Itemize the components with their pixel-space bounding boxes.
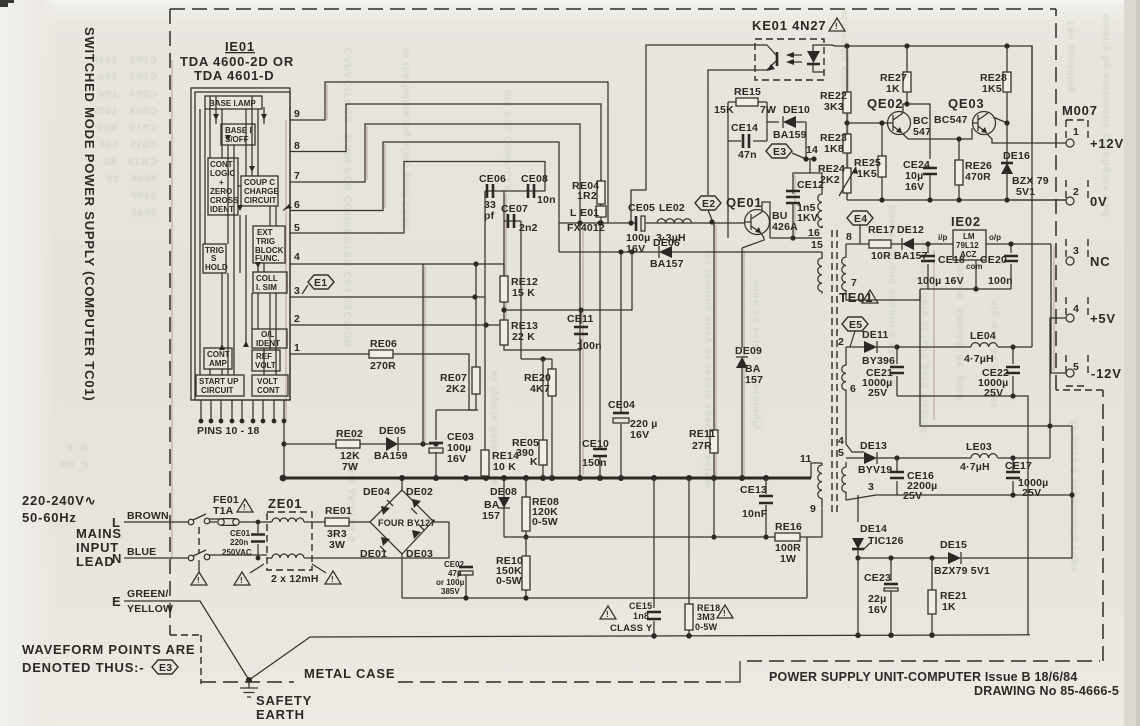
svg-text:10 K: 10 K — [493, 461, 516, 473]
svg-text:DE03: DE03 — [406, 548, 433, 560]
svg-text:PINS 10 - 18: PINS 10 - 18 — [197, 425, 260, 437]
junction dots ground rail — [651, 632, 935, 638]
resistor RE05 — [542, 359, 544, 478]
svg-text:CE14: CE14 — [731, 122, 758, 134]
svg-text:10n: 10n — [537, 194, 556, 206]
svg-text:10nF: 10nF — [742, 508, 768, 520]
svg-text:7W: 7W — [760, 104, 776, 116]
filter ZE01 dashed box — [267, 512, 312, 570]
svg-text:16: 16 — [808, 227, 820, 239]
svg-text:SAFETY: SAFETY — [256, 693, 312, 708]
svg-text:BZX79 5V1: BZX79 5V1 — [934, 565, 990, 577]
svg-text:DENOTED THUS:-: DENOTED THUS:- — [22, 660, 144, 675]
svg-text:E1: E1 — [314, 277, 327, 289]
svg-text:BC547: BC547 — [934, 114, 968, 126]
wire CE21/CE22 bottom rail — [897, 396, 1028, 635]
wire QE01 emitter to DE09 column — [742, 238, 764, 248]
wire +5V riser — [1050, 318, 1066, 458]
svg-text:QE01: QE01 — [726, 195, 762, 210]
svg-text:o/p: o/p — [989, 233, 1001, 242]
wire 0V link to CE16 rail — [1050, 426, 1072, 495]
warning triangle left of ZE01 — [234, 572, 250, 585]
connector pin 5 — [1066, 355, 1088, 386]
svg-text:2: 2 — [838, 336, 844, 348]
svg-text:HOLD: HOLD — [205, 263, 228, 272]
svg-text:CROSS: CROSS — [210, 196, 239, 205]
svg-text:pf: pf — [484, 210, 495, 222]
svg-text:WAVEFORM POINTS ARE: WAVEFORM POINTS ARE — [22, 642, 195, 657]
svg-text:50-60Hz: 50-60Hz — [22, 510, 77, 525]
resistor RE01 — [312, 521, 370, 523]
wire CE16/CE17 bottom rail — [897, 494, 1072, 496]
svg-text:3M3: 3M3 — [697, 612, 715, 622]
junction dot pin4/RE07 column — [473, 261, 478, 266]
capacitor CE08 — [528, 184, 534, 198]
connector pin 3 — [1066, 239, 1088, 257]
wire snubber line 537 — [504, 537, 807, 598]
wire QE02 collector node — [903, 104, 930, 159]
secondary winding 8-7 — [842, 244, 846, 292]
switch L pole — [188, 519, 194, 525]
svg-text:7: 7 — [294, 170, 300, 182]
block COLL I.SIM — [253, 272, 287, 293]
junction dot CE22 top — [1010, 344, 1015, 349]
svg-text:2K2: 2K2 — [446, 383, 466, 395]
svg-text:1W: 1W — [780, 553, 796, 565]
wire QE03 collector to RE28 column — [993, 117, 1007, 123]
junction dot CE01 top — [256, 520, 261, 525]
wire 359 link line — [521, 358, 552, 360]
svg-text:COUP C: COUP C — [244, 178, 275, 187]
wire DE11 to LE04 — [877, 346, 971, 348]
resistor RE15 — [728, 101, 767, 103]
svg-text:VOLT: VOLT — [257, 377, 278, 386]
svg-text:385V: 385V — [441, 587, 460, 596]
svg-text:470R: 470R — [965, 171, 991, 183]
svg-text:IDENT: IDENT — [210, 205, 234, 214]
svg-text:CE13: CE13 — [740, 484, 767, 496]
svg-text:!: ! — [240, 576, 243, 585]
svg-text:LM: LM — [963, 232, 975, 241]
svg-text:RE06: RE06 — [370, 338, 397, 350]
svg-text:426A: 426A — [772, 221, 798, 233]
transistor QE01 — [745, 210, 770, 235]
wire KE01 lower left lead to E2 — [708, 70, 755, 195]
junction dots DE06 line — [618, 249, 623, 254]
primary winding 15 — [818, 252, 822, 294]
junction dot CE03 top — [433, 441, 438, 446]
junction dot DE14 line — [855, 555, 860, 560]
internal bus wires IE01 — [200, 96, 276, 375]
secondary ground rail 635 — [310, 635, 1030, 637]
svg-text:DE12: DE12 — [897, 224, 924, 236]
node E2 hexagon — [695, 196, 721, 210]
wire CE06/CE08 line — [485, 190, 545, 192]
junction dots top wire — [844, 43, 849, 48]
svg-text:7: 7 — [851, 277, 857, 289]
resistor RE07 — [475, 264, 477, 410]
capacitor CE20 — [1010, 244, 1012, 289]
wire com rail down to 0V link — [920, 289, 1050, 426]
switch N pole — [188, 555, 194, 561]
svg-text:BA157: BA157 — [650, 258, 684, 270]
warning triangle below switch — [191, 572, 207, 585]
svg-text:E: E — [112, 594, 121, 609]
svg-text:CIRCUIT: CIRCUIT — [201, 386, 234, 395]
node E5 hexagon — [842, 317, 868, 331]
wire RE13 bottom line — [504, 345, 581, 350]
wire pin 7 staircase — [290, 124, 580, 223]
wire pin16 line — [770, 237, 822, 239]
svg-text:LE04: LE04 — [970, 330, 996, 342]
resistor RE20 — [551, 359, 553, 478]
svg-text:9: 9 — [294, 108, 300, 120]
svg-text:16V: 16V — [630, 429, 649, 441]
transformer TE01 core — [832, 230, 837, 512]
capacitor CE05 electrolytic — [635, 216, 638, 231]
svg-text:E5: E5 — [849, 319, 862, 331]
svg-text:DRAWING No 85-4666-5: DRAWING No 85-4666-5 — [974, 684, 1119, 698]
svg-text:E3: E3 — [159, 662, 172, 674]
svg-text:6: 6 — [850, 383, 856, 395]
svg-text:CIRCUIT: CIRCUIT — [244, 196, 277, 205]
resistor RE14 — [481, 450, 489, 476]
svg-text:CONT: CONT — [257, 386, 280, 395]
junction dots on primary bus — [280, 475, 769, 482]
junction dot RE08 bottom — [523, 534, 528, 539]
svg-text:CE05: CE05 — [628, 202, 655, 214]
svg-text:22 K: 22 K — [512, 331, 535, 343]
internal arrows IE01 — [213, 114, 267, 350]
svg-text:BA159: BA159 — [374, 450, 408, 462]
svg-text:ZE01: ZE01 — [268, 496, 302, 511]
diode DE06 line — [559, 251, 822, 253]
svg-text:!: ! — [835, 22, 838, 31]
wire CE06 left column to RE14 — [484, 191, 486, 450]
wire RE07 bottom link — [436, 409, 476, 411]
block CONT LOGIC ZERO CROSS IDENT — [208, 158, 238, 215]
svg-text:2: 2 — [294, 313, 300, 325]
svg-text:TDA 4600-2D OR: TDA 4600-2D OR — [180, 54, 294, 69]
svg-text:CE02: CE02 — [444, 560, 465, 569]
capacitor CE23 — [888, 555, 893, 560]
wire pin 3 line — [290, 296, 485, 298]
capacitor CE17 — [1012, 458, 1014, 495]
diode DE13 — [864, 452, 877, 464]
inductor LE04 — [971, 343, 997, 347]
switch gang dashed link — [198, 527, 200, 553]
svg-text:3: 3 — [294, 285, 300, 297]
svg-text:BROWN: BROWN — [127, 510, 169, 522]
svg-text:150n: 150n — [582, 457, 607, 469]
resistor RE08 — [525, 478, 527, 537]
svg-text:5: 5 — [838, 447, 844, 459]
svg-text:DE04: DE04 — [363, 486, 390, 498]
svg-text:3: 3 — [1073, 245, 1079, 257]
wire pin 9 staircase — [290, 82, 608, 223]
svg-text:RE01: RE01 — [325, 505, 352, 517]
svg-text:1K5: 1K5 — [982, 83, 1002, 95]
wire node 8 to RE17 — [846, 243, 869, 245]
wire tap to DE13 — [846, 444, 864, 458]
svg-text:1K8: 1K8 — [824, 143, 844, 155]
resistor RE04 — [600, 179, 602, 181]
wire CE07 line — [504, 220, 521, 222]
svg-text:DE14: DE14 — [860, 523, 887, 535]
warning triangle KE01 — [829, 18, 845, 31]
svg-text:220-240V∿: 220-240V∿ — [22, 493, 96, 508]
svg-text:KE01 4N27: KE01 4N27 — [752, 18, 826, 33]
wire snubber to DE10 — [767, 121, 806, 123]
svg-text:CHARGE: CHARGE — [244, 187, 279, 196]
svg-text:S: S — [211, 254, 217, 263]
diode DE02 (bridge top-right) — [412, 499, 421, 508]
svg-text:0-5W: 0-5W — [695, 622, 718, 632]
wire CE04 column — [620, 252, 622, 478]
capacitor CE06 — [487, 184, 493, 198]
svg-text:3K3: 3K3 — [824, 101, 844, 113]
svg-text:CE23: CE23 — [864, 572, 891, 584]
svg-text:T1A: T1A — [213, 505, 234, 517]
svg-text:DE05: DE05 — [379, 425, 406, 437]
svg-text:1K5: 1K5 — [857, 168, 877, 180]
svg-text:i/p: i/p — [938, 233, 947, 242]
svg-text:157: 157 — [482, 510, 500, 522]
wire pin 2 line — [290, 324, 500, 326]
svg-text:M007: M007 — [1062, 103, 1098, 118]
phototransistor KE01 left — [755, 45, 776, 70]
primary winding 14-16 — [818, 192, 822, 228]
svg-text:CLASS Y: CLASS Y — [610, 623, 653, 634]
inductor LE03 — [971, 454, 997, 458]
svg-text:CE08: CE08 — [521, 173, 548, 185]
svg-text:6: 6 — [294, 199, 300, 211]
diode DE15 — [948, 552, 961, 564]
preset RE24 — [843, 168, 851, 193]
block EXT TRIG BLOCK FUNC — [253, 226, 285, 263]
wire IE02 com to rail — [975, 260, 977, 289]
diode DE12 — [891, 243, 953, 245]
resistor RE28 — [1006, 46, 1008, 123]
svg-text:ZERO: ZERO — [210, 187, 232, 196]
resistor RE13 — [500, 320, 508, 345]
svg-text:3: 3 — [868, 481, 874, 493]
svg-text:BYV19: BYV19 — [858, 464, 892, 476]
junction dot CE22 bottom — [1010, 393, 1015, 398]
svg-text:YELLOW: YELLOW — [127, 603, 173, 615]
wire CE15 column — [653, 478, 655, 635]
junction dot E2 on base line — [709, 219, 714, 224]
inductor LE02 — [657, 219, 691, 223]
wire pin 1 line through RE06 — [290, 354, 478, 410]
wire RE02/DE05 line — [284, 443, 436, 445]
capacitor CE03 electrolytic — [435, 410, 437, 478]
wire base node to QE02 — [847, 122, 888, 124]
junction dots node 14 — [803, 156, 808, 161]
svg-text:FOUR BY127: FOUR BY127 — [378, 518, 436, 528]
svg-text:RE11: RE11 — [689, 428, 716, 440]
capacitor CE14 — [728, 140, 767, 142]
junction dot com rail — [973, 286, 978, 291]
svg-text:1K: 1K — [886, 83, 900, 95]
svg-text:TDA 4601-D: TDA 4601-D — [194, 68, 274, 83]
svg-text:DE13: DE13 — [860, 440, 887, 452]
svg-text:25V: 25V — [868, 387, 887, 399]
secondary winding 5-3 — [842, 462, 846, 500]
svg-text:!: ! — [606, 610, 609, 619]
svg-text:16V: 16V — [626, 243, 645, 255]
svg-text:100µ 16V: 100µ 16V — [917, 275, 964, 287]
svg-text:100n: 100n — [577, 340, 602, 352]
light arrows KE01 — [791, 55, 802, 62]
metal case dashed border right lower — [1102, 390, 1104, 661]
wire E lead to safety earth — [124, 601, 249, 680]
svg-text:DE09: DE09 — [735, 345, 762, 357]
capacitor CE02 — [465, 575, 467, 598]
svg-text:DE10: DE10 — [783, 104, 810, 116]
svg-text:K: K — [530, 456, 538, 468]
svg-text:47n: 47n — [738, 149, 757, 161]
svg-text:L: L — [112, 515, 121, 530]
wire node 14 — [793, 122, 822, 194]
svg-text:L: L — [570, 207, 577, 219]
svg-text:QE02: QE02 — [867, 96, 903, 111]
capacitor CE07 — [508, 214, 514, 228]
svg-text:BA159: BA159 — [773, 129, 807, 141]
svg-text:!: ! — [331, 575, 334, 584]
svg-text:14: 14 — [806, 144, 818, 156]
svg-text:DE11: DE11 — [862, 329, 889, 341]
svg-text:E4: E4 — [854, 213, 867, 225]
wire 580 column to bus — [579, 223, 581, 478]
node E3 hexagon — [766, 144, 792, 158]
svg-text:7W: 7W — [342, 461, 358, 473]
pin 6 stub arrow — [283, 206, 289, 211]
capacitor CE04 electrolytic — [613, 412, 629, 415]
metal case dashed border right upper — [1055, 9, 1057, 390]
svg-text:CONT: CONT — [210, 160, 233, 169]
capacitor CE01 — [257, 522, 259, 558]
wire base drive node line — [559, 222, 744, 224]
snubber left link — [727, 102, 729, 238]
svg-text:11: 11 — [800, 453, 812, 465]
svg-text:DE02: DE02 — [406, 486, 433, 498]
wire bridge bottom to rail — [401, 554, 403, 598]
diode DE06 — [659, 246, 672, 258]
capacitor CE22 — [1012, 347, 1014, 396]
wire pin 8 staircase to RE04 — [290, 104, 601, 181]
capacitor CE24 — [923, 168, 937, 174]
svg-text:0-5W: 0-5W — [532, 516, 558, 528]
block O/L IDENT — [252, 329, 287, 348]
svg-text:16V: 16V — [447, 453, 466, 465]
junction dot CE13 bottom — [763, 534, 768, 539]
svg-text:QE03: QE03 — [948, 96, 984, 111]
wire IE02 output — [986, 243, 1051, 245]
metal case dashed jog — [1056, 389, 1103, 391]
block TRIG S HOLD — [203, 244, 226, 273]
svg-text:EARTH: EARTH — [256, 707, 305, 722]
diode DE09 — [741, 248, 743, 478]
svg-text:2: 2 — [1073, 186, 1079, 198]
resistor RE22 — [846, 46, 848, 123]
svg-text:IE01: IE01 — [225, 39, 255, 54]
svg-text:1: 1 — [1073, 126, 1079, 138]
wire N to bridge right — [312, 522, 449, 558]
svg-text:0V: 0V — [1090, 194, 1108, 209]
wire com rail — [920, 288, 1011, 290]
wire QE02 emitter line to QE03 base — [903, 128, 972, 139]
svg-text:15: 15 — [811, 239, 823, 251]
svg-text:16V: 16V — [905, 181, 924, 193]
warning triangle right of ZE01 — [325, 571, 341, 584]
warning triangle TE01 — [862, 290, 878, 303]
right scan edge band — [1124, 0, 1140, 726]
metal case dashed border bottom-left step — [170, 635, 201, 684]
fuse FE01 — [218, 519, 224, 525]
scan colour fringe artifacts — [172, 50, 1054, 560]
svg-text:or 100µ: or 100µ — [436, 578, 465, 587]
zener DE16 — [1006, 123, 1008, 200]
svg-text:270R: 270R — [370, 360, 396, 372]
wire transformer pin 9 to RE16 — [800, 509, 822, 537]
block BASE I S/OFF — [221, 124, 255, 145]
wire winding 2 node to DE11 — [846, 346, 864, 348]
svg-text:CE06: CE06 — [479, 173, 506, 185]
IE01 pins 10-18 stubs — [201, 400, 284, 421]
wire 0V pin2 lead — [1011, 199, 1066, 201]
diode DE10 — [783, 116, 796, 128]
junction dots base node line — [577, 220, 582, 225]
capacitor CE18 — [927, 244, 929, 289]
svg-text:CE04: CE04 — [608, 399, 635, 411]
svg-text:8: 8 — [846, 231, 852, 243]
resistor RE02 — [336, 440, 360, 448]
ground safety earth symbol — [240, 680, 258, 697]
svg-text:25V: 25V — [1022, 487, 1041, 499]
capacitor CE10 — [593, 449, 607, 456]
junction dot CE17 top — [1010, 455, 1015, 460]
svg-text:DE06: DE06 — [653, 237, 680, 249]
wire bus stub to 537 line — [713, 478, 715, 537]
svg-text:!: ! — [243, 503, 246, 512]
svg-text:CE20: CE20 — [980, 254, 1007, 266]
transistor QE03 — [973, 112, 996, 135]
wire earth to secondary rail diagonal — [249, 637, 310, 680]
svg-text:LE02: LE02 — [659, 202, 685, 214]
svg-text:15K: 15K — [714, 104, 734, 116]
wire pin 7 return — [846, 289, 920, 300]
svg-text:I. SIM: I. SIM — [256, 283, 277, 292]
junction dot pin4 column on RE02 line — [420, 441, 425, 446]
capacitor CE12 — [786, 191, 800, 203]
block VOLT CONT — [252, 375, 288, 396]
svg-text:220n: 220n — [230, 538, 248, 547]
svg-text:100n: 100n — [988, 275, 1013, 287]
svg-text:1: 1 — [294, 342, 300, 354]
resistor RE21 — [929, 555, 934, 560]
svg-text:RE02: RE02 — [336, 428, 363, 440]
diode DE11 — [864, 341, 877, 353]
block START UP CIRCUIT — [196, 375, 244, 396]
svg-text:9: 9 — [810, 503, 816, 515]
regulator IE02 box — [953, 230, 986, 260]
svg-text:25V: 25V — [903, 490, 922, 502]
svg-text:10R: 10R — [871, 250, 891, 262]
snubber right link — [766, 102, 768, 141]
svg-text:2K2: 2K2 — [820, 174, 840, 186]
warning triangle CE15 — [600, 606, 616, 619]
